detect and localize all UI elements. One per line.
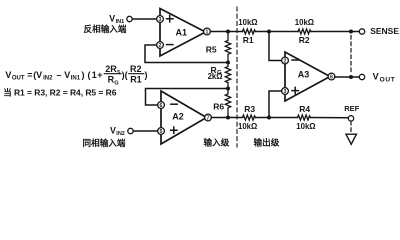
formula condition line — [3, 87, 117, 97]
svg-text:当 R1 = R3, R2 = R4, R5 = R6: 当 R1 = R3, R2 = R4, R5 = R6 — [3, 87, 117, 97]
wire R1 to R2 — [256, 31, 299, 33]
svg-text:3: 3 — [159, 17, 162, 23]
svg-text:IN1: IN1 — [71, 76, 81, 82]
dashed wire REF to ground arrow — [350, 121, 352, 134]
svg-text:反相输入端: 反相输入端 — [84, 23, 127, 34]
svg-text:IN2: IN2 — [43, 76, 53, 82]
svg-text:V: V — [5, 70, 11, 80]
svg-text:IN2: IN2 — [116, 131, 125, 137]
svg-text:输出级: 输出级 — [254, 136, 280, 147]
wire A3 out to VOUT terminal — [335, 76, 359, 78]
svg-text:R4: R4 — [299, 104, 310, 114]
node VOUT — [349, 75, 353, 79]
terminal V_IN1 — [127, 16, 132, 21]
svg-text:1: 1 — [92, 70, 97, 80]
svg-text:5: 5 — [160, 129, 163, 135]
pin 5 (A2 +) — [158, 128, 165, 135]
dashed wire SENSE to VOUT — [350, 36, 352, 73]
svg-text:2: 2 — [284, 59, 287, 65]
svg-text:(: ( — [88, 70, 91, 80]
svg-text:2: 2 — [159, 43, 162, 49]
svg-text:A1: A1 — [176, 27, 188, 37]
wire A1 feedback to R5/RG node — [145, 45, 228, 63]
svg-text:V: V — [373, 72, 379, 82]
label REF — [344, 104, 359, 113]
dashed stage separator line — [236, 7, 238, 147]
node RG/R6 — [226, 87, 230, 91]
resistor R3 — [238, 104, 257, 131]
label SENSE — [370, 26, 399, 36]
pin 3 (A3 +) — [282, 88, 289, 95]
label 同相输入端 — [83, 137, 126, 148]
node A1out/R5 — [226, 30, 230, 34]
svg-text:R2: R2 — [130, 64, 142, 74]
label V_IN2 — [110, 125, 125, 137]
resistor R1 — [238, 18, 257, 45]
wire VIN2 to A2 pin5 — [133, 130, 157, 132]
wire A1 out to node — [210, 31, 242, 33]
svg-text:7: 7 — [207, 116, 210, 122]
svg-text:2R: 2R — [105, 64, 117, 74]
wire R3 to R4 — [256, 117, 298, 119]
svg-text:)(: )( — [122, 70, 128, 80]
ground arrow (open triangle) — [346, 134, 356, 144]
pin 2 (A1 -) — [157, 42, 164, 49]
svg-text:): ) — [82, 70, 85, 80]
pin 6 (A3 out) — [328, 73, 335, 80]
svg-text:OUT: OUT — [12, 76, 25, 82]
svg-text:1: 1 — [206, 30, 209, 36]
wire A3 -in: node to pin2 — [269, 32, 282, 61]
svg-text:V: V — [64, 70, 70, 80]
svg-text:6: 6 — [330, 75, 333, 81]
wire A2 feedback to RG/R6 node — [146, 89, 229, 106]
resistor R5 — [206, 34, 231, 61]
svg-text:同相输入端: 同相输入端 — [83, 137, 126, 148]
node A3 +in feed — [267, 116, 271, 120]
svg-text:10kΩ: 10kΩ — [238, 18, 257, 27]
node R6/bottom rail — [226, 116, 230, 120]
pin 7 (A2 out) — [205, 114, 212, 121]
label 输入级 — [204, 136, 230, 147]
svg-text:R6: R6 — [213, 102, 224, 112]
pin 2 (A3 -) — [282, 57, 289, 64]
node R5/RG — [226, 61, 230, 65]
terminal REF — [348, 116, 353, 121]
resistor R4 — [296, 104, 315, 131]
resistor R2 — [295, 18, 314, 45]
label VOUT — [373, 72, 396, 84]
svg-text:R2: R2 — [299, 35, 310, 45]
terminal SENSE — [359, 29, 364, 34]
wire R4 to REF terminal — [311, 117, 349, 119]
label 反相输入端 — [84, 23, 127, 34]
svg-text:3: 3 — [284, 89, 287, 95]
formula VOUT equation — [5, 64, 147, 86]
svg-text:SENSE: SENSE — [370, 26, 399, 36]
svg-text:5: 5 — [117, 70, 121, 76]
svg-text:V: V — [110, 125, 116, 135]
svg-text:OUT: OUT — [380, 76, 396, 83]
wire node to SENSE terminal — [353, 31, 359, 33]
svg-text:R1: R1 — [130, 75, 142, 85]
node A3 -in feed — [267, 30, 271, 34]
svg-text:R1: R1 — [243, 35, 254, 45]
svg-text:R3: R3 — [244, 104, 255, 114]
svg-text:A3: A3 — [298, 69, 310, 79]
label V_IN1 — [109, 13, 124, 25]
pin 1 (A1 out) — [204, 28, 211, 35]
svg-text:6: 6 — [160, 103, 163, 109]
node SENSE — [349, 30, 353, 34]
svg-text:+: + — [97, 70, 102, 80]
svg-text:G: G — [114, 80, 119, 86]
svg-text:=: = — [27, 70, 32, 80]
wire R2 to SENSE node — [311, 31, 351, 33]
terminal V_IN2 — [128, 128, 133, 133]
svg-text:2kΩ: 2kΩ — [208, 72, 223, 81]
resistor RG 2k — [208, 63, 231, 89]
svg-text:10kΩ: 10kΩ — [295, 18, 314, 27]
svg-text:): ) — [145, 70, 148, 80]
svg-text:(V: (V — [33, 70, 42, 80]
wire VIN1 to A1 pin3 — [132, 18, 156, 20]
svg-text:V: V — [109, 13, 115, 23]
svg-text:A2: A2 — [172, 111, 184, 121]
terminal VOUT — [359, 74, 364, 79]
svg-text:10kΩ: 10kΩ — [296, 122, 315, 131]
wire A2 out along bottom rail — [211, 117, 242, 119]
op-amp A3 — [285, 52, 330, 101]
resistor R6 — [213, 89, 231, 118]
svg-text:–: – — [57, 70, 62, 80]
svg-text:REF: REF — [344, 104, 359, 113]
wire A3 +in: node to pin3 — [269, 91, 282, 118]
svg-text:10kΩ: 10kΩ — [238, 122, 257, 131]
pin 3 (A1 +) — [157, 16, 164, 23]
op-amp A2 — [161, 91, 207, 144]
op-amp A1 — [160, 9, 206, 57]
pin 6 (A2 -) — [158, 102, 165, 109]
svg-text:R5: R5 — [206, 45, 217, 55]
label 输出级 — [254, 136, 280, 147]
svg-text:输入级: 输入级 — [204, 136, 230, 147]
